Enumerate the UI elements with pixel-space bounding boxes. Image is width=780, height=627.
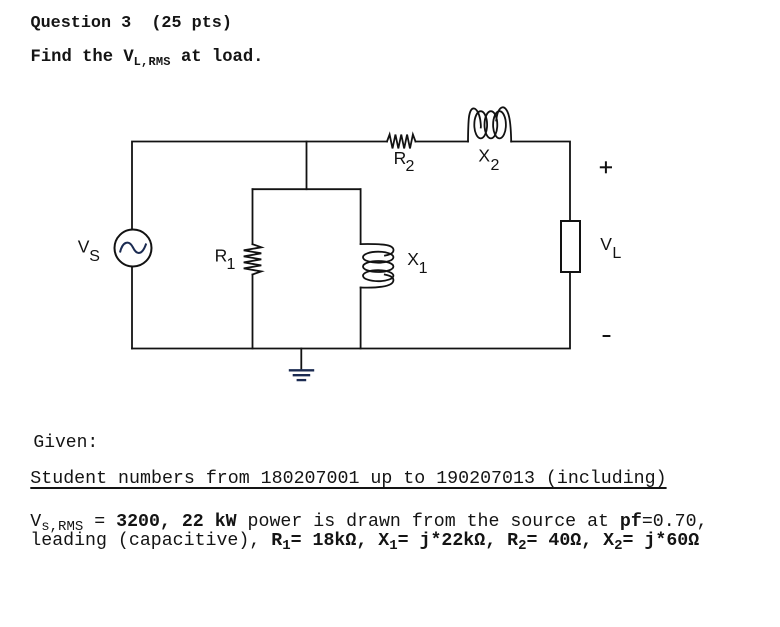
wire: X1 lower lead — [360, 288, 362, 349]
wire: X1 upper lead — [360, 189, 362, 244]
svg-text:X: X — [407, 249, 419, 269]
student numbers underlined — [30, 470, 666, 488]
svg-text:2: 2 — [491, 157, 500, 174]
ground bars — [289, 370, 314, 380]
ground stem — [300, 349, 302, 371]
paragraph — [30, 513, 707, 551]
svg-text:1: 1 — [419, 260, 428, 277]
wire: source bottom lead — [131, 267, 133, 349]
svg-text:L: L — [612, 245, 621, 262]
wire: R1 upper lead — [252, 189, 254, 244]
svg-text:2: 2 — [406, 158, 415, 175]
given — [33, 434, 98, 452]
load box VL — [561, 221, 580, 272]
title line — [31, 15, 232, 32]
minus sign near load — [603, 335, 611, 337]
wire: top-left from source to R2 — [132, 142, 387, 230]
wire: inner top — [253, 188, 361, 190]
find line — [31, 49, 264, 67]
inductor X1 — [361, 244, 394, 288]
resistor R1 — [244, 244, 262, 274]
source sine wave — [120, 243, 146, 253]
wire: X2 to top-right corner down to load — [511, 142, 570, 222]
svg-text:S: S — [89, 248, 100, 265]
inductor X2 — [468, 107, 511, 141]
svg-text:1: 1 — [227, 256, 236, 273]
plus sign near load — [600, 161, 612, 336]
wire: R1 lower lead — [252, 275, 254, 349]
wire: junction drop — [306, 142, 308, 190]
wire: R2 to X2 — [416, 141, 469, 143]
source circle VS — [115, 230, 152, 267]
svg-text:V: V — [78, 237, 90, 257]
resistor R2 — [387, 135, 416, 149]
svg-text:V: V — [600, 234, 612, 254]
svg-text:R: R — [394, 148, 407, 168]
wire: load to bottom-right corner, bottom wire — [132, 272, 570, 349]
svg-text:X: X — [478, 145, 490, 165]
svg-text:R: R — [215, 246, 228, 266]
